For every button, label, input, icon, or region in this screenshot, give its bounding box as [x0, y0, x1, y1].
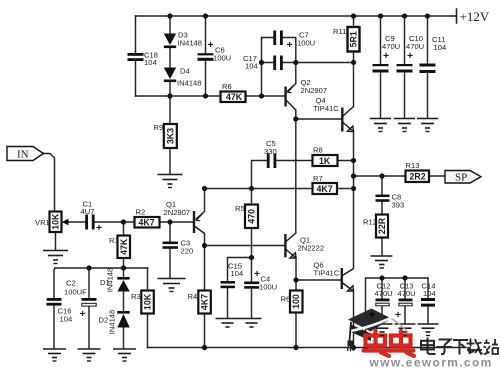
ground under R12	[371, 256, 393, 265]
wire VAS column down to Q1 collector	[295, 119, 297, 233]
ground under C11	[417, 119, 438, 129]
capacitor C11	[420, 35, 447, 73]
wire left C18 branch	[135, 16, 137, 96]
svg-text:104: 104	[245, 62, 258, 71]
svg-text:+: +	[383, 50, 389, 62]
wire bias rail	[55, 267, 148, 269]
wire R3 branch	[147, 268, 149, 348]
wire C16 branch	[54, 268, 55, 349]
wire C7 C17 right branch	[283, 38, 296, 63]
ground under C12	[372, 324, 393, 332]
svg-text:104: 104	[60, 315, 73, 324]
resistor R9	[154, 123, 177, 148]
wire C6 branch	[205, 16, 207, 96]
svg-text:1K: 1K	[319, 156, 331, 166]
svg-text:2N2907: 2N2907	[301, 86, 328, 95]
wire C4 branch	[251, 258, 253, 319]
wire C2 branch	[88, 268, 90, 349]
wire Q4 collector column	[353, 63, 355, 107]
svg-text:3K3: 3K3	[165, 128, 175, 144]
svg-text:470U: 470U	[375, 289, 393, 298]
wire C12 branch	[381, 278, 383, 324]
wire R11 leads	[353, 16, 355, 63]
+12V supply terminal	[456, 9, 458, 23]
svg-text:104: 104	[231, 269, 244, 278]
svg-text:R11: R11	[333, 27, 346, 36]
ground under C10	[394, 119, 415, 129]
svg-text:R1: R1	[109, 236, 119, 245]
capacitor C14	[421, 282, 436, 307]
svg-text:SP: SP	[455, 172, 467, 184]
wire C15 stub	[228, 258, 252, 282]
svg-text:104: 104	[423, 289, 436, 298]
svg-text:D4: D4	[180, 67, 190, 76]
svg-text:100U: 100U	[213, 54, 231, 63]
svg-text:VR1: VR1	[35, 218, 50, 227]
resistor R3	[131, 291, 154, 314]
ground under C14	[418, 324, 439, 332]
svg-text:2N2222: 2N2222	[298, 244, 325, 253]
wire Q1 emitter column	[204, 189, 206, 212]
svg-text:R8: R8	[313, 146, 323, 155]
svg-text:R6: R6	[222, 82, 232, 91]
svg-text:4K7: 4K7	[200, 294, 210, 310]
transistor Q1 2N2907	[164, 200, 205, 234]
svg-text:R6: R6	[281, 295, 291, 304]
transistor Q6 TIP41C	[314, 261, 354, 292]
svg-text:2N2907: 2N2907	[164, 208, 191, 217]
capacitor C6	[198, 39, 232, 63]
resistor R12	[363, 215, 388, 238]
svg-text:470U: 470U	[406, 42, 424, 51]
svg-text:R13: R13	[406, 161, 420, 170]
wire C9 branch	[380, 16, 382, 118]
resistor R2	[135, 208, 160, 228]
svg-text:TIP41C: TIP41C	[314, 269, 340, 278]
wire mid rail	[136, 95, 285, 97]
transistor Q1 2N2222	[285, 233, 324, 258]
svg-text:IN4148: IN4148	[108, 310, 117, 335]
resistor R7	[313, 174, 338, 194]
watermark char zi	[437, 340, 453, 355]
wire Q1 collector column	[204, 234, 206, 246]
svg-text:R2: R2	[136, 208, 146, 217]
resistor R11	[333, 27, 360, 52]
svg-text:47K: 47K	[119, 238, 129, 255]
svg-text:100U: 100U	[297, 39, 315, 48]
wire Q6 base	[296, 279, 341, 281]
wire C14 branch	[427, 278, 429, 324]
svg-text:www.eeworm.com: www.eeworm.com	[369, 356, 493, 368]
wire C1 to R2 node	[95, 221, 135, 223]
capacitor C9	[373, 34, 401, 73]
capacitor C13	[395, 282, 416, 322]
wire R9 branch	[169, 96, 171, 174]
wire C10 branch	[404, 16, 406, 118]
watermark red character chong 2	[389, 331, 414, 356]
wire R6b leads	[295, 280, 297, 348]
svg-text:104: 104	[434, 43, 447, 52]
capacitor C16	[47, 298, 73, 324]
svg-text:220: 220	[181, 247, 194, 256]
wire C3 branch	[169, 222, 171, 278]
ground under D2	[113, 349, 136, 358]
ground under R9	[158, 175, 183, 185]
svg-text:104: 104	[144, 58, 157, 67]
svg-text:330: 330	[264, 147, 277, 156]
wire C7 C17 left branch	[262, 38, 274, 97]
ground under C16	[43, 349, 66, 358]
wire VR1 to ground	[55, 232, 57, 250]
svg-text:IN: IN	[17, 149, 29, 161]
wire vas top rail	[296, 62, 354, 64]
transistor Q4 TIP41C	[313, 96, 354, 132]
diode D3	[164, 31, 202, 49]
svg-text:C2: C2	[66, 279, 76, 288]
wire C15 to ground	[227, 288, 229, 319]
svg-text:100: 100	[291, 294, 301, 309]
wire Q2 collector to Q4 base node	[295, 110, 297, 119]
svg-text:+: +	[80, 308, 86, 320]
svg-text:393: 393	[392, 201, 405, 210]
resistor R13	[406, 161, 430, 182]
wire Q1b emitter down	[295, 258, 297, 280]
resistor R1	[109, 236, 130, 259]
svg-text:100U: 100U	[259, 283, 277, 292]
wire D1 D2 branch	[123, 268, 125, 349]
wire D3 D4 branch	[169, 16, 171, 96]
svg-text:10K: 10K	[51, 213, 61, 230]
ground under C3	[158, 279, 186, 289]
svg-text:470: 470	[247, 209, 257, 224]
potentiometer VR1	[35, 212, 69, 233]
ground under C9	[370, 119, 391, 129]
diode D1	[100, 268, 130, 293]
wire R1 branch	[123, 222, 125, 268]
svg-text:100UF: 100UF	[64, 288, 87, 297]
wire C5 left and R5 branch	[252, 161, 268, 258]
svg-text:10K: 10K	[143, 293, 153, 310]
capacitor C17	[243, 54, 283, 71]
svg-text:+: +	[208, 39, 214, 51]
wire C8 R12 branch	[381, 176, 383, 256]
diode D2	[99, 310, 130, 335]
capacitor C5	[264, 139, 277, 168]
wire C5 R8 link	[277, 160, 354, 162]
svg-text:+: +	[96, 222, 102, 234]
watermark char xia	[453, 340, 468, 355]
resistor R6 100	[281, 291, 303, 313]
svg-text:470U: 470U	[382, 42, 400, 51]
wire feedback rail	[205, 188, 354, 190]
svg-text:R9: R9	[154, 123, 164, 132]
svg-text:+: +	[407, 50, 413, 62]
svg-text:R7: R7	[313, 174, 323, 183]
svg-text:IN4148: IN4148	[177, 79, 202, 88]
svg-text:5R1: 5R1	[349, 31, 359, 47]
svg-text:IN4148: IN4148	[178, 39, 203, 48]
capacitor C12	[372, 282, 393, 322]
capacitor C4	[244, 268, 277, 292]
watermark char zhan	[484, 339, 499, 355]
svg-text:4U7: 4U7	[81, 207, 95, 216]
wire SP rail	[354, 175, 446, 177]
port IN	[7, 147, 44, 161]
ground under VR1	[43, 251, 68, 261]
resistor R4	[188, 291, 211, 314]
watermark graduation cap logo	[347, 309, 407, 352]
port SP	[445, 171, 481, 184]
svg-text:22R: 22R	[377, 217, 387, 234]
wire R2 to Q1 base	[160, 221, 194, 223]
svg-text:4K7: 4K7	[139, 218, 155, 228]
wire R4 branch	[204, 246, 206, 348]
transistor Q2 2N2907	[286, 78, 328, 110]
capacitor C7	[273, 31, 315, 52]
capacitor C10	[397, 34, 425, 73]
diode D4	[164, 67, 202, 88]
ground shared C15 C4	[216, 319, 262, 328]
wire C12 rail	[366, 278, 429, 348]
capacitor C8	[376, 193, 405, 210]
wire +12V top rail	[136, 15, 457, 17]
svg-text:TIP41C: TIP41C	[313, 104, 339, 113]
wire input stage rail	[205, 245, 285, 247]
capacitor C3	[163, 239, 194, 256]
capacitor C18	[128, 51, 158, 68]
capacitor C1	[81, 200, 103, 235]
wire C11 branch	[427, 16, 429, 118]
svg-text:47K: 47K	[226, 92, 243, 102]
svg-text:470U: 470U	[398, 289, 416, 298]
svg-text:4K7: 4K7	[317, 184, 333, 194]
svg-text:+12V: +12V	[460, 9, 490, 24]
wire Q4 base	[296, 118, 342, 120]
ground tick marks	[53, 132, 431, 362]
svg-text:IN4148: IN4148	[106, 268, 115, 293]
resistor R8	[313, 146, 338, 167]
svg-text:R12: R12	[363, 218, 377, 227]
resistor R6	[221, 82, 246, 102]
ground under C2	[78, 349, 101, 358]
wire Q6 emitter down	[353, 291, 355, 348]
svg-text:+: +	[287, 39, 293, 51]
wire Q2 emitter column	[295, 63, 297, 84]
capacitor C15	[221, 262, 244, 289]
svg-text:R3: R3	[131, 292, 141, 301]
wire IN to VR1	[44, 154, 55, 212]
watermark red character chong 1	[364, 331, 390, 356]
svg-text:+: +	[254, 268, 260, 280]
wire output column	[353, 132, 355, 269]
wire C13 branch	[404, 278, 406, 324]
watermark char dian	[421, 338, 436, 355]
ground under C13	[395, 324, 416, 332]
svg-text:2R2: 2R2	[410, 172, 426, 182]
watermark char zai	[467, 339, 483, 355]
capacitor C2	[64, 279, 97, 321]
wire bottom rail	[148, 347, 467, 349]
svg-text:R5: R5	[235, 204, 245, 213]
resistor R5	[235, 204, 258, 228]
svg-text:R4: R4	[188, 292, 198, 301]
svg-text:+: +	[395, 309, 401, 321]
wire VR1 wiper to C1	[68, 221, 85, 223]
